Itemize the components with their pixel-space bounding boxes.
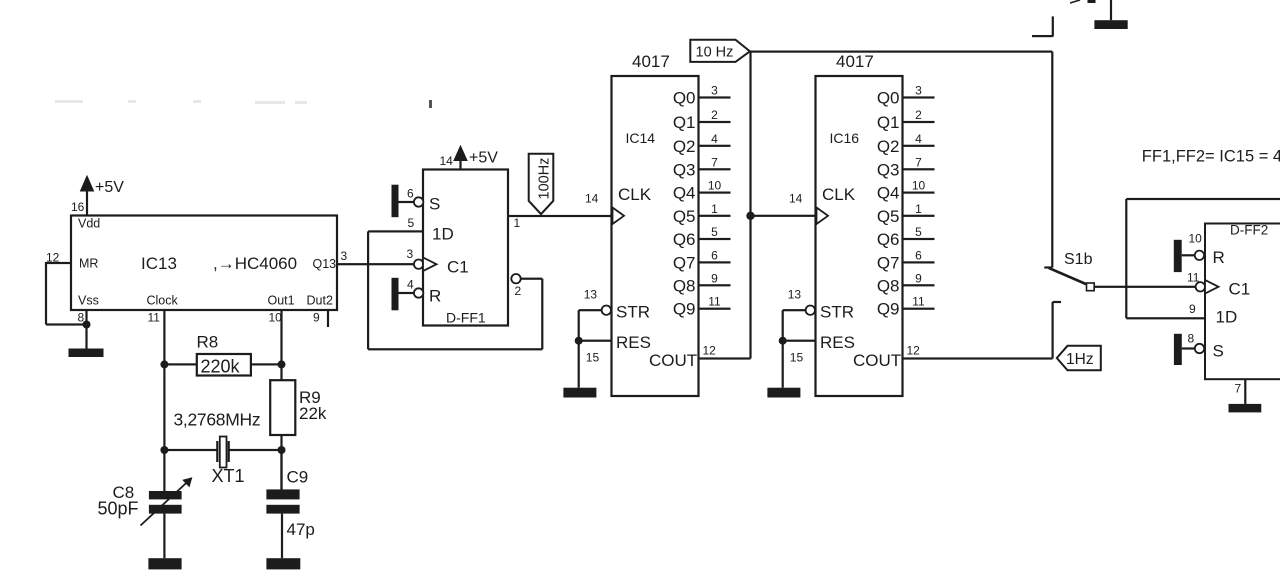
svg-text:22k: 22k — [299, 404, 327, 423]
svg-text:Q0: Q0 — [877, 89, 900, 108]
svg-text:2: 2 — [711, 108, 718, 122]
svg-text:3: 3 — [711, 84, 718, 98]
svg-text:14: 14 — [789, 192, 803, 206]
svg-text:1D: 1D — [1216, 308, 1238, 327]
svg-text:COUT: COUT — [853, 351, 901, 370]
svg-text:13: 13 — [584, 288, 598, 302]
svg-text:3: 3 — [341, 249, 348, 263]
svg-text:2: 2 — [515, 284, 522, 298]
svg-text:11: 11 — [148, 311, 161, 325]
svg-text:XT1: XT1 — [212, 466, 245, 486]
svg-text:12: 12 — [907, 344, 921, 358]
svg-text:10 Hz: 10 Hz — [696, 45, 734, 61]
svg-text:Q0: Q0 — [673, 89, 696, 108]
svg-text:47p: 47p — [287, 520, 315, 539]
svg-text:R8: R8 — [197, 333, 219, 352]
svg-text:Q5: Q5 — [673, 207, 696, 226]
svg-text:1: 1 — [711, 202, 718, 216]
svg-text:6: 6 — [407, 187, 414, 201]
svg-text:,→HC4060: ,→HC4060 — [213, 254, 297, 273]
svg-text:Q2: Q2 — [877, 137, 900, 156]
svg-text:5: 5 — [408, 216, 415, 230]
svg-text:Q1: Q1 — [673, 113, 696, 132]
svg-text:10: 10 — [708, 179, 722, 193]
svg-text:50pF: 50pF — [98, 499, 139, 519]
svg-text:Q3: Q3 — [673, 160, 696, 179]
svg-text:D-FF2: D-FF2 — [1230, 223, 1268, 238]
svg-text:6: 6 — [915, 248, 922, 262]
svg-text:6: 6 — [711, 248, 718, 262]
svg-text:Q6: Q6 — [877, 230, 900, 249]
svg-text:Out1: Out1 — [268, 294, 295, 308]
svg-text:S: S — [429, 195, 440, 214]
svg-text:Q8: Q8 — [877, 276, 900, 295]
svg-text:9: 9 — [915, 271, 922, 285]
svg-text:12: 12 — [703, 344, 717, 358]
svg-text:14: 14 — [585, 192, 599, 206]
svg-text:STR: STR — [616, 303, 650, 322]
svg-text:RES: RES — [820, 333, 855, 352]
svg-text:C9: C9 — [287, 468, 309, 487]
svg-text:S: S — [1213, 342, 1224, 361]
svg-text:Q5: Q5 — [877, 207, 900, 226]
svg-text:C1: C1 — [1229, 280, 1251, 299]
svg-text:13: 13 — [788, 288, 802, 302]
svg-text:1: 1 — [514, 216, 521, 230]
svg-text:Clock: Clock — [147, 294, 179, 308]
svg-text:5: 5 — [915, 225, 922, 239]
svg-text:3: 3 — [915, 84, 922, 98]
svg-text:Q4: Q4 — [877, 184, 900, 203]
svg-text:4017: 4017 — [632, 52, 670, 71]
svg-text:+5V: +5V — [469, 150, 498, 167]
svg-text:IC13: IC13 — [141, 254, 177, 273]
svg-text:C1: C1 — [447, 258, 469, 277]
svg-text:Q9: Q9 — [673, 300, 696, 319]
svg-text:11: 11 — [1187, 271, 1200, 285]
svg-text:IC16: IC16 — [830, 130, 860, 146]
svg-text:16: 16 — [71, 200, 85, 214]
svg-text:STR: STR — [820, 303, 854, 322]
svg-text:9: 9 — [1189, 302, 1196, 316]
svg-text:1: 1 — [915, 202, 922, 216]
svg-text:10: 10 — [1189, 232, 1203, 246]
svg-text:IC14: IC14 — [626, 130, 656, 146]
svg-text:15: 15 — [790, 351, 804, 365]
svg-text:3,2768MHz: 3,2768MHz — [174, 410, 261, 430]
svg-text:8: 8 — [1188, 332, 1195, 346]
svg-text:MR: MR — [79, 257, 98, 271]
svg-text:FF1,FF2= IC15 = 40: FF1,FF2= IC15 = 40 — [1142, 148, 1280, 166]
svg-text:7: 7 — [1235, 382, 1242, 396]
svg-text:Q9: Q9 — [877, 300, 900, 319]
svg-text:Q4: Q4 — [673, 184, 696, 203]
svg-text:Q8: Q8 — [673, 276, 696, 295]
svg-text:4: 4 — [915, 132, 922, 146]
svg-text:10: 10 — [269, 311, 283, 325]
svg-text:11: 11 — [912, 295, 925, 309]
svg-text:CLK: CLK — [822, 185, 856, 204]
svg-text:RES: RES — [616, 333, 651, 352]
svg-text:4017: 4017 — [836, 52, 874, 71]
svg-text:Vdd: Vdd — [78, 217, 100, 231]
svg-text:220k: 220k — [201, 357, 241, 377]
svg-text:1Hz: 1Hz — [1066, 351, 1094, 368]
svg-text:4: 4 — [407, 278, 414, 292]
svg-text:Vss: Vss — [78, 294, 99, 308]
svg-text:R: R — [1213, 248, 1225, 267]
svg-text:Q3: Q3 — [877, 160, 900, 179]
svg-text:9: 9 — [313, 311, 320, 325]
svg-text:3: 3 — [407, 247, 414, 261]
svg-text:Dut2: Dut2 — [307, 294, 333, 308]
svg-text:2: 2 — [915, 108, 922, 122]
svg-text:Q13: Q13 — [313, 257, 337, 271]
svg-text:Q1: Q1 — [877, 113, 900, 132]
svg-text:9: 9 — [711, 271, 718, 285]
svg-text:CLK: CLK — [618, 185, 652, 204]
svg-text:+5V: +5V — [95, 179, 124, 196]
svg-text:Q6: Q6 — [673, 230, 696, 249]
svg-text:100Hz: 100Hz — [537, 158, 553, 200]
svg-text:5: 5 — [711, 225, 718, 239]
svg-text:Q7: Q7 — [673, 253, 696, 272]
svg-text:R: R — [429, 287, 441, 306]
svg-text:D-FF1: D-FF1 — [446, 310, 486, 326]
svg-text:7: 7 — [915, 155, 922, 169]
svg-text:14: 14 — [440, 154, 454, 168]
svg-text:4: 4 — [711, 132, 718, 146]
svg-text:10: 10 — [912, 179, 926, 193]
svg-text:1D: 1D — [432, 225, 454, 244]
svg-text:7: 7 — [711, 155, 718, 169]
svg-text:15: 15 — [586, 351, 600, 365]
svg-text:S1b: S1b — [1064, 251, 1093, 268]
svg-text:Q7: Q7 — [877, 253, 900, 272]
svg-text:Q2: Q2 — [673, 137, 696, 156]
svg-text:COUT: COUT — [649, 351, 697, 370]
svg-text:11: 11 — [708, 295, 721, 309]
